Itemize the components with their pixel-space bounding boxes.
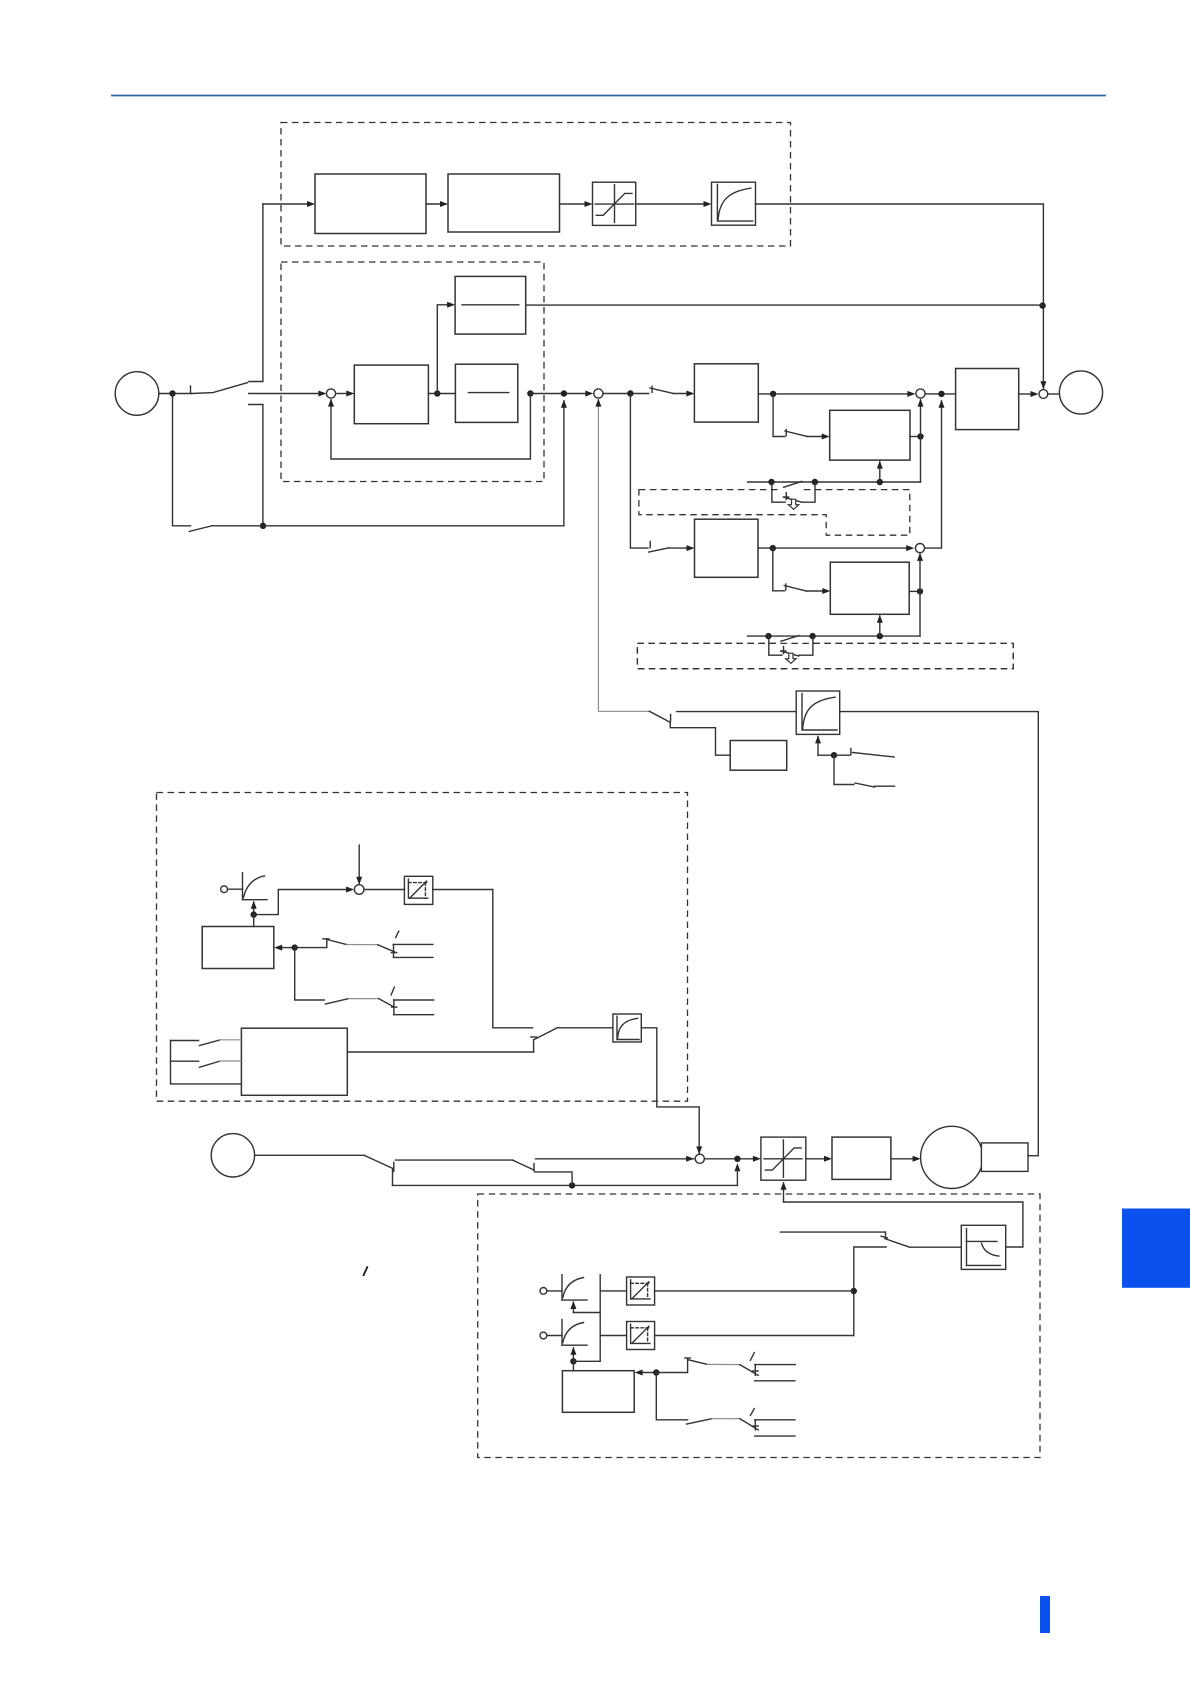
wire: S7 out to limiter with bypass merge xyxy=(704,1158,755,1160)
block: PI regulator xyxy=(354,365,428,424)
switch SW4 xyxy=(785,430,808,437)
scaling icon block (linear scale) xyxy=(404,876,432,904)
node: junction on right rail xyxy=(1039,302,1045,308)
wire: droop feed line 2 xyxy=(748,635,920,637)
wire: bypass drop from input tap xyxy=(173,394,191,526)
wire: to lower bypass line xyxy=(392,1168,394,1185)
wire: arrow into hold block xyxy=(641,1372,657,1374)
wire: scaler out down to switch xyxy=(433,890,533,1028)
wire: filter out to encoder rail xyxy=(840,712,1039,1156)
dashed box: droop control 2 xyxy=(637,643,1013,668)
wire: into small summing S5 xyxy=(1019,393,1033,395)
multi-switch A xyxy=(295,931,433,957)
summing junction S2 xyxy=(594,389,603,398)
wire into block K1 xyxy=(673,393,688,395)
wire: S5 to output circle xyxy=(1048,393,1060,395)
multi-switch C xyxy=(656,1353,795,1381)
block I1 (integral time 1) xyxy=(830,410,910,460)
selector (droop default) 1 xyxy=(772,481,815,509)
input circle (speed reference) xyxy=(115,372,159,416)
wire: to switch SW9 xyxy=(255,1154,365,1156)
row 2: bias input xyxy=(540,1320,600,1365)
limiter icon block U-sat1 xyxy=(593,182,636,225)
wire: drop to integral block I2 xyxy=(773,548,785,591)
block (bias hold) xyxy=(562,1371,634,1413)
block (memory register) xyxy=(202,927,274,969)
wire: logic out to switch SW8 xyxy=(347,1051,533,1053)
wire: bypass line to riser xyxy=(212,401,564,526)
switch SW6 xyxy=(784,584,806,591)
input circle (analog torque limit) xyxy=(221,886,228,893)
wire: ASR local feedback loop xyxy=(331,394,530,460)
limiter icon block U-sat2 xyxy=(761,1137,806,1180)
wire: K1 out to S3 xyxy=(758,393,909,395)
wire: S2 output xyxy=(603,393,649,395)
switch SW8 xyxy=(531,1028,558,1052)
wire: up into I1 bottom xyxy=(879,462,881,482)
dashed box: droop control 1 (L-shape) xyxy=(639,490,910,536)
switch SW11 (above lag filter) xyxy=(780,1232,961,1247)
wire: hold setting drop xyxy=(572,1361,574,1370)
wire: K2 out to S4 xyxy=(758,547,908,549)
wire: drop to integral block I1 xyxy=(773,394,785,437)
wire: S1 to PI xyxy=(336,393,349,395)
node: input tap xyxy=(169,390,175,396)
row 1: bias input xyxy=(540,1275,600,1313)
wire: feedback line into filter xyxy=(677,711,797,713)
wire: filter out down and to bottom section xyxy=(641,1028,699,1153)
blue footer mark xyxy=(1040,1596,1050,1633)
node + stub switches (filter time select) xyxy=(818,754,834,756)
block K2 (proportional gain 2) xyxy=(695,519,759,577)
wire: contact riser from row lines xyxy=(854,1247,886,1336)
dashed box: speed regulator (ASR) xyxy=(281,262,544,482)
summing junction S3 xyxy=(916,389,925,398)
curve icon (limit characteristic) xyxy=(243,873,268,900)
multi-switch B xyxy=(295,948,434,1015)
summing junction S7 xyxy=(695,1154,704,1163)
slash mark (stray label remnant) xyxy=(363,1266,367,1276)
vertical bus beside row icons xyxy=(599,1275,601,1362)
node: bypass junction xyxy=(260,523,266,529)
node: branch tap A xyxy=(627,390,633,396)
switch SW2 (bypass) xyxy=(189,526,212,532)
wire: droop feed line 1 xyxy=(748,481,921,483)
wire: main line to S1 xyxy=(249,393,321,395)
wire: I1 out up into S3 xyxy=(910,436,921,438)
motor circle M xyxy=(921,1126,983,1188)
wire: top chain xyxy=(263,203,309,205)
input circle (torque reference input) xyxy=(211,1134,254,1177)
dashed box: droop control 2 xyxy=(637,643,1013,668)
wire: lower contact xyxy=(249,405,263,526)
wire: upper contact to top group xyxy=(249,204,263,382)
block (output gain) xyxy=(832,1137,891,1179)
switch SW7 (feedback select) xyxy=(649,711,670,722)
output circle (torque reference out) xyxy=(1059,371,1102,414)
multi-switch D xyxy=(656,1373,795,1437)
row 2 scaler xyxy=(600,1322,854,1350)
blue tab marker xyxy=(1122,1209,1190,1288)
input stubs with switches xyxy=(171,1040,242,1084)
encoder block PG xyxy=(981,1143,1028,1172)
block: fraction (P gain) xyxy=(455,364,517,422)
wire: input to node xyxy=(159,393,192,395)
summing junction S4 xyxy=(915,544,924,553)
filter block (feedback lag filter) xyxy=(796,691,840,734)
switch SW1 (reference select) xyxy=(191,383,248,394)
wire: into summing junction S7 xyxy=(536,1158,694,1160)
wire: I2 out up into S4 xyxy=(909,590,920,592)
dashed box: torque limit group xyxy=(157,793,688,1102)
wire: branch 2 drop xyxy=(630,394,648,549)
switch SW3 (gain path 1) xyxy=(650,386,673,393)
block: division (I gain) xyxy=(455,276,526,334)
block (torque limit logic) xyxy=(241,1028,347,1095)
summing junction S1 xyxy=(326,389,335,398)
block (torque ref input) xyxy=(315,174,426,234)
node: ASR output xyxy=(527,390,533,396)
block (torque ref filter) xyxy=(448,174,560,232)
block K1 (proportional gain 1) xyxy=(694,364,758,422)
wire: S4 output up to main line xyxy=(925,401,942,548)
header rule xyxy=(112,95,1105,97)
selector (droop default) 2 xyxy=(769,636,813,664)
block (speed estimator) xyxy=(730,741,787,771)
wire: top output to right rail xyxy=(756,204,1044,388)
wire: staircase to bypass xyxy=(534,1170,573,1186)
wire: gain to motor xyxy=(891,1158,915,1160)
summing junction S6 xyxy=(354,885,364,895)
wire: upper contact line xyxy=(396,1159,513,1161)
wire: setting arrow from above into S6 xyxy=(358,845,360,884)
wire: gain arrow under curve icon xyxy=(253,902,255,915)
switch SW10 xyxy=(513,1160,534,1170)
filter icon block (limit filter) xyxy=(613,1014,641,1042)
wire: scaling line from lag filter xyxy=(784,1202,1023,1247)
wire: PI out to P block with tap up to division xyxy=(428,393,455,395)
wire: filter gain arrow from below xyxy=(817,737,819,756)
summing junction S5 xyxy=(1039,390,1048,399)
wire: to summing junction S6 xyxy=(254,890,348,915)
block I2 (integral time 2) xyxy=(830,562,909,614)
row 1 scaler xyxy=(600,1277,854,1305)
wire: S1 group output to S2 xyxy=(530,393,587,395)
dashed box: torque reference group xyxy=(281,123,791,247)
lag filter block (delay icon) xyxy=(961,1225,1005,1269)
wire: arrow into register right edge xyxy=(280,947,295,949)
wire: speed feedback riser (gray) xyxy=(598,399,649,712)
wire: encoder to feedback rail xyxy=(1028,1155,1038,1157)
wire: S3 output with junction from below xyxy=(925,393,956,395)
wire: up into I2 bottom xyxy=(879,616,881,636)
wire: staircase to observer block xyxy=(670,722,730,755)
dashed box: torque compensation group xyxy=(478,1194,1040,1458)
filter icon block (first-order lag rise) xyxy=(712,182,756,225)
wire: tap into register xyxy=(253,915,255,927)
wire: scaling input up into limiter xyxy=(783,1183,785,1202)
wire: S6 to scaler xyxy=(364,889,404,891)
block (torque limit block) xyxy=(956,369,1019,430)
wire: limiter to gain block xyxy=(806,1158,826,1160)
wire: division output xyxy=(526,304,1043,306)
switch SW5 (gain path 2) xyxy=(649,542,669,553)
switch SW9 xyxy=(364,1155,394,1171)
